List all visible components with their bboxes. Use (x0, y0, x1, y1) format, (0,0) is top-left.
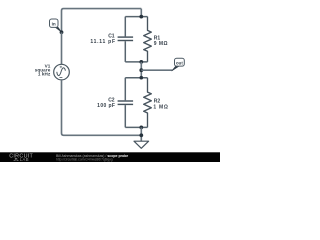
svg-text:1 MΩ: 1 MΩ (153, 104, 168, 110)
svg-text:9 MΩ: 9 MΩ (154, 41, 168, 47)
wire box1 bottom bar (125, 61, 147, 63)
wire stem box1 to box2 (140, 62, 142, 78)
resistor R2 (144, 78, 152, 128)
junction dot box1 bottom (139, 60, 143, 64)
svg-text:out: out (176, 60, 183, 65)
junction dot at in tap (60, 30, 64, 34)
node out flag (172, 58, 185, 71)
wire stem box2 to ground (140, 127, 142, 141)
junction dot out tap (139, 68, 143, 72)
junction dot box1 top (139, 15, 143, 19)
svg-text:in: in (52, 22, 56, 27)
resistor R1 (144, 17, 152, 62)
footer bar (0, 152, 220, 162)
wire stem into box1 (140, 9, 142, 17)
wire left rail upper (in tap to source) (61, 32, 63, 64)
svg-text:LAB: LAB (20, 157, 29, 162)
svg-text:http://circuitlab.com/c/4mws86: http://circuitlab.com/c/4mws86/7qj9gyg (56, 157, 113, 161)
svg-text:1 kHz: 1 kHz (38, 72, 51, 77)
svg-text:100 pF: 100 pF (97, 103, 115, 109)
wire top rail from input corner to stem (62, 9, 142, 33)
junction dot box2 top (140, 76, 144, 80)
wire out tap (141, 69, 172, 71)
wire left rail lower and bottom rail (62, 80, 142, 135)
footer CircuitLab logo (9, 154, 33, 162)
node in flag (50, 19, 62, 32)
capacitor C2 (118, 78, 134, 128)
wire box2 top bar (125, 77, 147, 79)
wire box2 bottom bar (125, 126, 147, 128)
svg-text:11.11 pF: 11.11 pF (90, 39, 115, 45)
wire box1 top bar (125, 16, 147, 18)
junction dot box2 bottom (139, 126, 143, 130)
capacitor C1 (118, 17, 134, 62)
ground symbol (134, 141, 149, 148)
voltage source V1 (54, 64, 70, 80)
junction dot bottom rail (139, 133, 143, 137)
